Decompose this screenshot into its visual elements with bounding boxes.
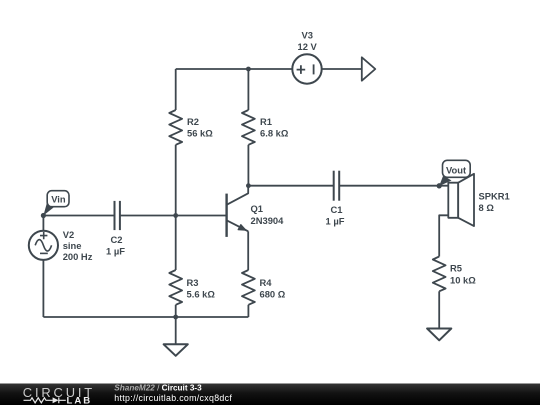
svg-text:12 V: 12 V [298, 41, 318, 52]
svg-text:R2: R2 [187, 116, 199, 127]
node Vout junction [437, 183, 442, 188]
wire R1 to collector node [247, 145, 249, 186]
voltage source V3 [292, 54, 321, 83]
speaker SPKR1 [448, 174, 474, 226]
node base junction [173, 213, 178, 218]
node collector junction [246, 183, 251, 188]
capacitor C2 [115, 201, 120, 230]
svg-text:R5: R5 [450, 263, 462, 274]
wire R5 to ground [438, 291, 440, 328]
wire R3 bottom lead [175, 305, 177, 317]
svg-text:Vout: Vout [446, 165, 466, 176]
wire R2 top lead [175, 69, 177, 110]
wire R2 to base node [175, 145, 177, 216]
svg-text:SPKR1: SPKR1 [479, 191, 510, 202]
wire V2 top lead [42, 216, 44, 231]
resistor R2 [169, 110, 182, 145]
svg-text:V2: V2 [63, 229, 74, 240]
voltage source V2 [29, 231, 58, 260]
flag Vout [437, 160, 471, 188]
transistor Q1 [227, 186, 249, 237]
wire emitter to R4 [247, 231, 249, 270]
svg-text:V3: V3 [302, 30, 313, 41]
svg-text:sine: sine [63, 240, 82, 251]
svg-text:8 Ω: 8 Ω [479, 202, 495, 213]
resistor R1 [242, 110, 255, 145]
svg-text:200 Hz: 200 Hz [63, 251, 93, 262]
wire base node to R3 [175, 216, 177, 271]
wire C1 to speaker [339, 185, 448, 187]
svg-text:5.6 kΩ: 5.6 kΩ [187, 288, 216, 299]
svg-text:1 µF: 1 µF [326, 216, 345, 227]
svg-text:R3: R3 [187, 277, 199, 288]
wire bottom rail [43, 316, 248, 318]
resistor R3 [169, 270, 182, 305]
svg-text:6.8 kΩ: 6.8 kΩ [260, 128, 289, 139]
svg-text:10 kΩ: 10 kΩ [450, 275, 476, 286]
wire speaker bottom to R5 [439, 215, 448, 256]
flag Vin [41, 191, 69, 218]
svg-text:1 µF: 1 µF [106, 246, 125, 257]
svg-text:http://circuitlab.com/cxq8dcf: http://circuitlab.com/cxq8dcf [114, 393, 232, 403]
wire collector to C1 [248, 185, 333, 187]
wire top rail [176, 68, 293, 70]
svg-text:C2: C2 [111, 234, 123, 245]
wire base wire [176, 215, 227, 217]
svg-text:C1: C1 [331, 204, 343, 215]
wire R1 top lead [247, 69, 249, 110]
wire R4 bottom lead [247, 305, 249, 317]
wire Vin node to C2 [43, 215, 114, 217]
wire V2 bottom lead [42, 260, 44, 317]
svg-text:Q1: Q1 [251, 203, 264, 214]
logo diode symbol [53, 397, 59, 403]
svg-text:56 kΩ: 56 kΩ [187, 128, 213, 139]
resistor R5 [433, 257, 446, 292]
resistor R4 [242, 270, 255, 305]
ground right [427, 329, 451, 341]
node top rail junction [246, 67, 251, 72]
svg-text:R4: R4 [260, 277, 273, 288]
svg-text:R1: R1 [260, 116, 272, 127]
svg-text:ShaneM22 / Circuit 3-3: ShaneM22 / Circuit 3-3 [114, 384, 202, 393]
svg-text:680 Ω: 680 Ω [260, 288, 286, 299]
logo resistor squiggle [24, 398, 53, 403]
ground left [164, 344, 188, 356]
svg-text:Vin: Vin [51, 193, 66, 204]
wire C2 to base node [120, 215, 176, 217]
node bottom rail junction [173, 315, 178, 320]
wire ground drop left [175, 317, 177, 344]
capacitor C1 [334, 171, 340, 201]
terminal arrow VCC [362, 57, 376, 80]
wire V3 to output terminal [322, 68, 362, 70]
svg-text:2N3904: 2N3904 [251, 215, 285, 226]
svg-text:LAB: LAB [67, 395, 93, 405]
footer bar [0, 384, 540, 405]
